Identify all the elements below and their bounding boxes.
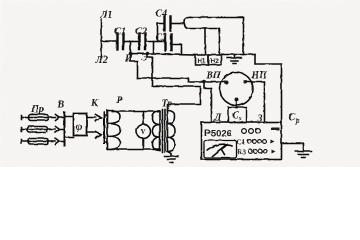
svg-text:С2: С2 bbox=[135, 26, 147, 37]
svg-text:С4: С4 bbox=[155, 8, 167, 19]
transformer Тр right winding bbox=[167, 110, 175, 151]
svg-text:Л1: Л1 bbox=[99, 10, 112, 21]
svg-text:R3: R3 bbox=[237, 148, 246, 156]
regulator Р coil bbox=[107, 110, 120, 149]
meter needle bbox=[207, 144, 232, 156]
svg-text:С3: С3 bbox=[155, 32, 167, 43]
fuse Пр2 bbox=[21, 127, 55, 131]
switch К bar bbox=[103, 112, 105, 143]
fuse Пр3 bbox=[21, 139, 55, 143]
electrode dot left bbox=[224, 80, 228, 84]
capacitor C3 bbox=[165, 34, 171, 50]
wire Э to transformer bbox=[152, 86, 200, 110]
box Сх terminal bbox=[228, 107, 246, 122]
wire filter to К bbox=[87, 117, 96, 132]
knob row C4 bbox=[247, 139, 251, 143]
svg-text:Н2: Н2 bbox=[210, 58, 219, 65]
svg-text:Р5026: Р5026 bbox=[204, 128, 231, 139]
switch В bar bbox=[63, 112, 65, 145]
wire C3 right to H1 corner bbox=[172, 44, 181, 54]
wire box to ground right bbox=[281, 143, 303, 151]
knob row top bbox=[241, 128, 246, 133]
svg-text:ВП: ВП bbox=[205, 70, 222, 81]
capacitor C2 bbox=[139, 33, 145, 49]
fuse Пр1 bbox=[21, 115, 55, 119]
svg-text:К: К bbox=[90, 98, 99, 109]
svg-text:Л2: Л2 bbox=[94, 55, 108, 66]
instrument box Р5026 bbox=[201, 122, 281, 159]
transformer Тр left winding bbox=[152, 111, 160, 150]
svg-text:С1: С1 bbox=[114, 26, 126, 37]
switch К contacts bbox=[95, 114, 101, 138]
wire secondary bottom to ground bbox=[167, 151, 171, 156]
wire Э stair down bbox=[147, 53, 152, 86]
ground bottom right bbox=[295, 151, 311, 157]
meter window bbox=[204, 140, 237, 158]
wire hairpin top drop right bbox=[242, 17, 244, 54]
wire step down to right side bbox=[255, 54, 282, 122]
wire НП right bbox=[247, 82, 264, 123]
transformer core bbox=[162, 109, 165, 152]
wire C2-C3 bbox=[146, 40, 164, 42]
svg-text:НП: НП bbox=[250, 70, 268, 81]
wire hairpin drop to H1 bbox=[204, 28, 206, 55]
terminal dash bbox=[271, 127, 279, 130]
wire drop node Э bbox=[152, 41, 154, 53]
box Н2 bbox=[208, 55, 221, 65]
knob row R3 bbox=[248, 149, 252, 153]
node junction ВП/Д bbox=[202, 80, 206, 84]
wire drop node И bbox=[129, 41, 131, 53]
svg-text:3: 3 bbox=[256, 113, 262, 124]
svg-text:Д: Д bbox=[213, 112, 222, 123]
svg-text:В: В bbox=[56, 99, 64, 110]
wire C1-C2 bbox=[124, 40, 138, 42]
wire И to ВП plate bbox=[137, 78, 224, 82]
wire C4 to hairpin bbox=[171, 22, 184, 24]
wire C4 branch up bbox=[157, 23, 163, 41]
svg-text:С4: С4 bbox=[236, 138, 245, 146]
capacitor C1 bbox=[117, 33, 123, 49]
wire hairpin drop to H2 bbox=[218, 28, 220, 54]
wire H2 to right row bbox=[221, 53, 255, 55]
wire cathode down bbox=[235, 99, 237, 107]
node И bbox=[128, 51, 132, 55]
svg-text:Пр: Пр bbox=[30, 104, 44, 115]
wire hairpin cable loop bbox=[184, 17, 243, 28]
svg-text:φ: φ bbox=[76, 121, 83, 133]
tube envelope bbox=[220, 72, 253, 105]
svg-text:V: V bbox=[140, 127, 146, 136]
electrode dot right bbox=[243, 80, 247, 84]
filter box Ф bbox=[73, 113, 87, 135]
ground after H2 bbox=[227, 54, 241, 63]
wire И stair down bbox=[130, 53, 137, 78]
node Э bbox=[145, 51, 149, 55]
svg-text:Р: Р bbox=[116, 95, 123, 106]
svg-text:Н1: Н1 bbox=[197, 58, 206, 65]
terminal Л1/Л2 vertical bus bbox=[100, 19, 102, 57]
svg-text:И: И bbox=[124, 53, 134, 64]
capacitor C4 bbox=[164, 16, 170, 30]
wire primary bottom bbox=[110, 148, 159, 150]
ground transformer bbox=[164, 156, 178, 162]
voltmeter V bbox=[136, 124, 150, 138]
voltmeter stems bbox=[142, 111, 144, 149]
wire main line to H1 bbox=[130, 53, 195, 55]
wire primary top bbox=[112, 110, 159, 112]
wire Л bus to C1 bbox=[101, 40, 116, 42]
wire Д terminal drop bbox=[204, 82, 211, 123]
wire В to filter bbox=[64, 116, 73, 137]
svg-text:Э: Э bbox=[141, 52, 148, 63]
electrode dot bottom bbox=[234, 97, 238, 101]
svg-text:Тр: Тр bbox=[161, 98, 172, 109]
box Н1 bbox=[195, 55, 208, 65]
